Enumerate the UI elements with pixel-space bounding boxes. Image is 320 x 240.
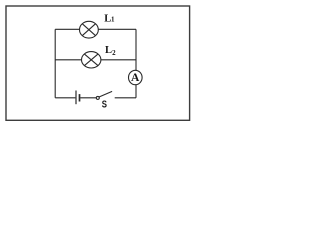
svg-text:S: S — [102, 98, 107, 110]
label L1 — [104, 14, 115, 25]
wire branch rail L2 right segment — [101, 59, 136, 61]
wire right vertical upper — [135, 29, 137, 70]
svg-text:A: A — [131, 72, 140, 84]
wire bottom rail right segment — [115, 97, 136, 99]
wire left vertical — [54, 29, 56, 98]
svg-text:2: 2 — [112, 49, 116, 57]
lamp L1 — [80, 21, 99, 38]
svg-text:1: 1 — [111, 16, 115, 24]
svg-text:L: L — [105, 45, 112, 56]
label L2 — [105, 45, 116, 57]
lamp L2 — [82, 52, 101, 68]
battery cell — [76, 91, 80, 105]
wire bottom rail left segment — [55, 97, 75, 99]
wire top rail right segment — [98, 28, 136, 30]
wire bottom rail middle segment — [80, 97, 96, 99]
switch S — [96, 91, 112, 99]
ammeter A — [129, 70, 143, 84]
wire branch rail L2 left segment — [55, 59, 81, 61]
wire top rail left segment — [55, 28, 79, 30]
wire right vertical lower — [135, 85, 137, 98]
